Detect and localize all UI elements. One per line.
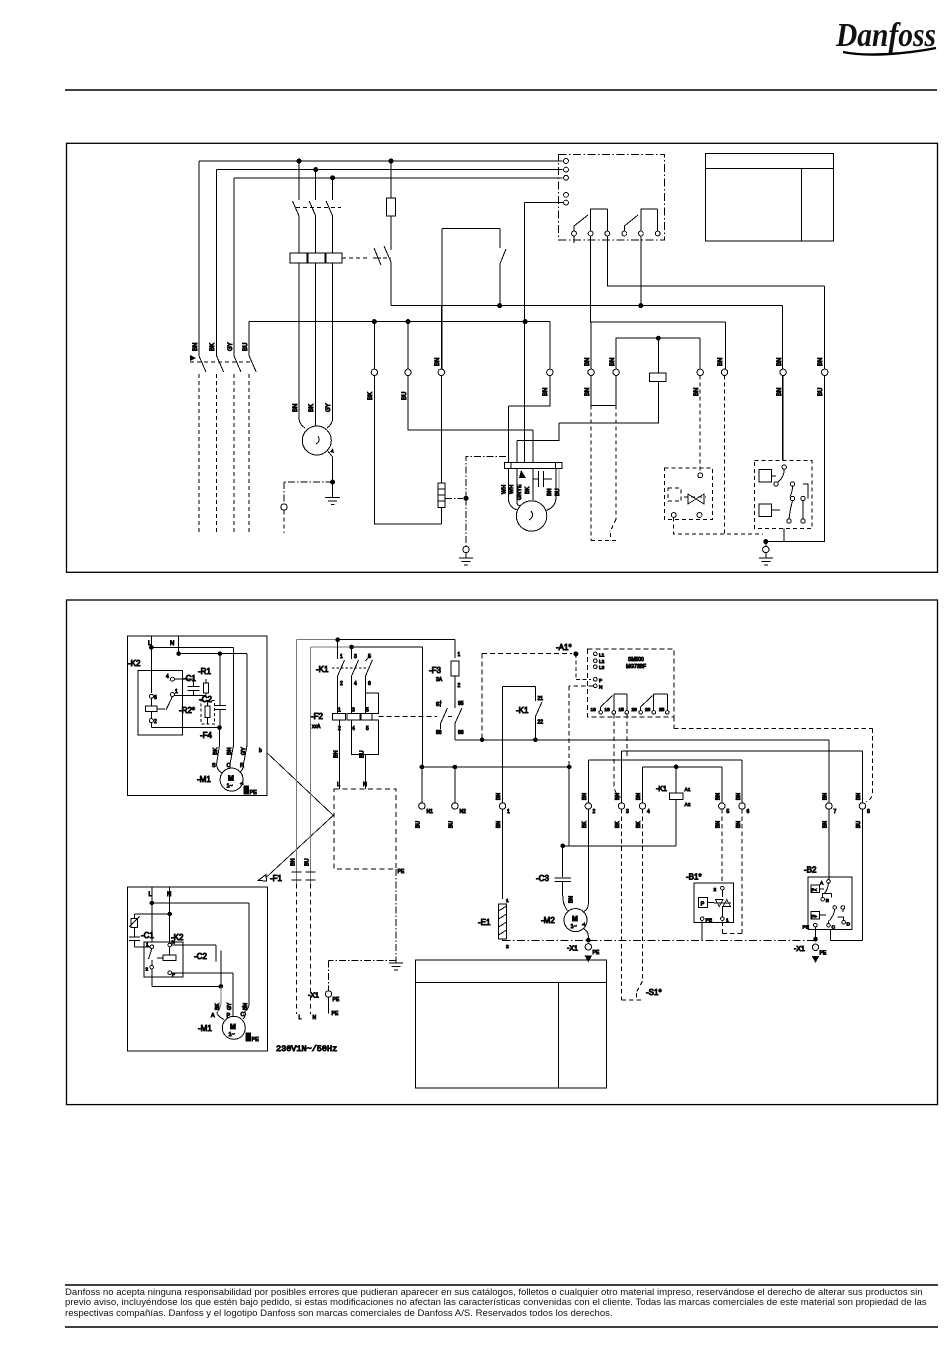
svg-text:BU: BU bbox=[449, 821, 455, 828]
svg-text:-F2: -F2 bbox=[311, 712, 324, 721]
svg-text:2: 2 bbox=[506, 944, 509, 950]
dash-dot control box (top right) bbox=[559, 154, 665, 240]
svg-text:2: 2 bbox=[340, 681, 343, 687]
node L1 junction bbox=[297, 159, 301, 163]
motor M1 230 bbox=[217, 1004, 246, 1039]
component bridge box (contactor bar) bbox=[442, 229, 506, 370]
svg-text:P<: P< bbox=[811, 887, 817, 892]
connector row circles bbox=[371, 369, 828, 375]
svg-text:-K1: -K1 bbox=[316, 665, 329, 674]
svg-text:22: 22 bbox=[538, 720, 544, 726]
svg-text:B: B bbox=[826, 898, 829, 904]
wire net terminal 4 5 with K1 coil bbox=[643, 767, 722, 803]
svg-text:N: N bbox=[167, 892, 171, 898]
dashed drop to B1 bbox=[722, 809, 742, 933]
flag F1 bbox=[258, 875, 267, 882]
svg-text:-S1*: -S1* bbox=[646, 988, 662, 997]
wire N rail left bbox=[422, 647, 569, 803]
svg-text:-R2*: -R2* bbox=[179, 706, 195, 715]
svg-text:1~: 1~ bbox=[229, 1032, 235, 1038]
svg-text:A: A bbox=[211, 1013, 215, 1019]
node grey taps bbox=[336, 638, 340, 642]
module dashed box bbox=[334, 789, 396, 869]
svg-text:M: M bbox=[572, 916, 578, 923]
svg-text:BN: BN bbox=[610, 358, 616, 366]
start relay internals bbox=[759, 376, 808, 542]
wire L1 feed bbox=[199, 161, 563, 356]
terminal PE circle 3 bbox=[763, 546, 769, 552]
svg-text:BN: BN bbox=[585, 388, 591, 396]
svg-text:BU: BU bbox=[555, 488, 561, 496]
svg-text:BN: BN bbox=[547, 488, 553, 496]
wire K2 bottom rail bbox=[151, 727, 219, 729]
svg-text:3A: 3A bbox=[436, 677, 443, 683]
node A1 star bbox=[574, 652, 578, 656]
svg-text:BN: BN bbox=[694, 388, 700, 396]
svg-text:4: 4 bbox=[647, 809, 650, 815]
svg-text:BU: BU bbox=[402, 392, 408, 400]
svg-text:N1: N1 bbox=[427, 809, 434, 815]
main bus bbox=[455, 740, 829, 803]
wire main horizontal to pressure boxes bbox=[391, 306, 782, 461]
terminal X1 PE (230V) bbox=[325, 991, 331, 997]
wire BN drop (441) bbox=[440, 306, 442, 483]
svg-text:1: 1 bbox=[338, 708, 341, 714]
pressure control box (dashed) bbox=[665, 468, 713, 520]
svg-text:BN: BN bbox=[569, 896, 575, 903]
dashed N link A1 bbox=[569, 686, 593, 767]
PE tag M1 bbox=[244, 786, 257, 796]
heater E1 bbox=[499, 809, 509, 950]
svg-text:BN: BN bbox=[736, 821, 742, 828]
svg-text:BN: BN bbox=[585, 358, 591, 366]
svg-text:N: N bbox=[172, 940, 175, 945]
wire A grey bbox=[217, 986, 221, 1012]
box M1 variant 230V bbox=[128, 887, 268, 1051]
svg-text:3: 3 bbox=[626, 809, 629, 815]
svg-text:BN: BN bbox=[496, 793, 502, 800]
svg-text:1: 1 bbox=[340, 654, 343, 660]
wire B1 PE drop bbox=[701, 920, 703, 940]
pressure switch B2 bbox=[803, 809, 853, 930]
svg-text:C: C bbox=[832, 925, 836, 931]
wire F2 outputs bbox=[339, 720, 365, 789]
overload trip linkage bbox=[342, 257, 370, 259]
dashed to P terminal bbox=[576, 654, 591, 679]
svg-text:A1: A1 bbox=[685, 787, 691, 793]
svg-text:xxA: xxA bbox=[312, 724, 321, 730]
svg-text:BN: BN bbox=[823, 793, 829, 800]
motor M1 bbox=[217, 764, 244, 791]
wire P to motor bbox=[172, 973, 233, 1012]
svg-text:-K2: -K2 bbox=[128, 659, 141, 668]
svg-text:5: 5 bbox=[366, 708, 369, 714]
svg-text:4: 4 bbox=[354, 681, 357, 687]
wire PE dashed stub bbox=[283, 511, 285, 534]
breaker Q1 pole 2 bbox=[309, 170, 316, 253]
schematic frame 1 bbox=[67, 143, 938, 572]
svg-text:WH: WH bbox=[509, 485, 515, 494]
wire L bbox=[150, 636, 152, 693]
svg-text:BK: BK bbox=[309, 404, 315, 412]
capacitor C (run cap M2) bbox=[533, 471, 552, 487]
svg-text:L3: L3 bbox=[599, 665, 605, 671]
node junction 641 bbox=[639, 304, 643, 308]
controller A1 dashed box bbox=[587, 649, 674, 717]
svg-text:1: 1 bbox=[146, 942, 149, 947]
motor M2 (1~) bbox=[516, 501, 546, 531]
relay K2 box bbox=[138, 670, 183, 735]
svg-text:26: 26 bbox=[632, 707, 638, 713]
footer rules bbox=[65, 1284, 938, 1286]
node junction bbox=[764, 540, 768, 544]
svg-text:5: 5 bbox=[727, 809, 730, 815]
wire S bbox=[217, 728, 220, 764]
svg-text:b: b bbox=[259, 748, 262, 754]
resistor R2 dashed option bbox=[201, 701, 215, 724]
svg-text:BN: BN bbox=[716, 821, 722, 828]
svg-text:PE: PE bbox=[706, 918, 712, 924]
wire M1 PE bbox=[327, 450, 333, 482]
svg-text:BU: BU bbox=[360, 750, 366, 758]
relay K2 230 bbox=[144, 933, 184, 977]
trip dashes F2 to F3 bbox=[378, 716, 437, 718]
header rule bbox=[65, 89, 937, 91]
breaker linkage bbox=[296, 207, 341, 209]
wire dashed bottom link bbox=[674, 517, 763, 534]
switch K2 contacts on feed lines bbox=[190, 355, 256, 372]
svg-text:6: 6 bbox=[368, 681, 371, 687]
svg-text:BN: BN bbox=[496, 821, 502, 828]
svg-text:-X1: -X1 bbox=[308, 993, 319, 1000]
svg-text:BN: BN bbox=[856, 793, 862, 800]
svg-text:1: 1 bbox=[726, 918, 729, 924]
wire dashed L N to X1 bbox=[297, 884, 311, 1014]
svg-text:N: N bbox=[599, 684, 603, 690]
svg-text:3: 3 bbox=[354, 654, 357, 660]
wire motor M1 phases bbox=[299, 305, 333, 415]
wire N 230 bbox=[169, 887, 171, 943]
svg-text:BN: BN bbox=[777, 358, 783, 366]
svg-text:-F1: -F1 bbox=[270, 874, 283, 883]
svg-text:BN: BN bbox=[543, 388, 549, 396]
svg-text:N2: N2 bbox=[460, 809, 467, 815]
svg-text:BU: BU bbox=[243, 343, 249, 351]
terminal X1 B2 bbox=[812, 944, 818, 950]
wire L2 feed bbox=[217, 170, 563, 356]
fuse clips F1 bbox=[292, 872, 316, 880]
wire BN drop 550 bbox=[508, 322, 549, 463]
wire B2 PE drop bbox=[814, 927, 816, 939]
wire BU bus bbox=[249, 322, 550, 356]
svg-text:95: 95 bbox=[458, 701, 464, 707]
svg-text:1: 1 bbox=[507, 809, 510, 815]
wire terminal2 to M2 bbox=[584, 809, 588, 911]
terminal X1 M2 bbox=[585, 944, 591, 950]
svg-text:-X1: -X1 bbox=[794, 946, 805, 953]
svg-text:L1: L1 bbox=[599, 653, 605, 659]
dashed drops to pressure switch box bbox=[700, 376, 724, 535]
wire labels row bbox=[416, 793, 863, 828]
svg-text:PE: PE bbox=[250, 790, 258, 796]
svg-text:PE: PE bbox=[593, 950, 600, 956]
svg-text:BK: BK bbox=[615, 821, 621, 828]
breaker Q1 pole 3 bbox=[326, 178, 333, 253]
fuse F (line 1 tap) bbox=[387, 161, 396, 250]
svg-text:BK: BK bbox=[582, 821, 588, 828]
wire right return bbox=[766, 376, 825, 542]
svg-text:BK: BK bbox=[368, 392, 374, 400]
node PE junction 2 bbox=[464, 496, 468, 500]
svg-text:4: 4 bbox=[352, 726, 355, 732]
sensor B1 box bbox=[686, 873, 734, 924]
svg-text:7: 7 bbox=[834, 809, 837, 815]
pointer a to F1 bbox=[266, 815, 333, 877]
svg-text:18: 18 bbox=[605, 707, 611, 713]
thermistor branch bbox=[129, 914, 170, 937]
node fuse junction bbox=[389, 159, 393, 163]
svg-text:PE: PE bbox=[820, 951, 827, 957]
relay K2 internals bbox=[145, 674, 178, 728]
svg-text:15: 15 bbox=[619, 707, 625, 713]
trip switch to fuse line bbox=[373, 248, 381, 265]
rating table bbox=[706, 153, 834, 241]
svg-text:-A1*: -A1* bbox=[556, 643, 572, 652]
node junction 499 bbox=[498, 304, 502, 308]
svg-text:BN: BN bbox=[636, 793, 642, 800]
dash-dot PE rail bbox=[503, 939, 816, 941]
svg-text:BN: BN bbox=[718, 358, 724, 366]
svg-text:PE: PE bbox=[333, 997, 340, 1003]
svg-text:BK: BK bbox=[636, 821, 642, 828]
svg-text:L: L bbox=[299, 1015, 302, 1021]
wire top feeds bbox=[338, 640, 456, 647]
dashed output 15 bbox=[626, 714, 628, 757]
svg-text:GY: GY bbox=[326, 403, 332, 412]
svg-text:-E1: -E1 bbox=[478, 918, 491, 927]
wire PE dash-dot riser bbox=[466, 456, 507, 546]
capacitor C1 bbox=[174, 679, 206, 695]
neutral drop to M2 net bbox=[563, 767, 677, 846]
svg-text:16: 16 bbox=[591, 707, 597, 713]
svg-text:BU: BU bbox=[305, 858, 311, 866]
svg-text:P>: P> bbox=[811, 914, 817, 919]
wire L3 feed bbox=[234, 178, 563, 356]
dashed output 18 bbox=[614, 714, 621, 797]
wire BK drop bbox=[374, 322, 441, 524]
capacitor C3 bbox=[555, 846, 572, 911]
svg-text:L2: L2 bbox=[599, 659, 605, 665]
svg-text:BN: BN bbox=[818, 358, 824, 366]
ground symbol 2 bbox=[459, 553, 473, 565]
node dots on BU bus bbox=[372, 320, 376, 324]
wire PE dashdot module bbox=[329, 869, 396, 991]
start relay box (dashed) bbox=[755, 461, 812, 529]
svg-text:230V1N~/50Hz: 230V1N~/50Hz bbox=[276, 1044, 337, 1054]
breaker Q1 pole 1 bbox=[293, 161, 300, 253]
svg-text:96: 96 bbox=[458, 730, 464, 736]
svg-text:BN: BN bbox=[736, 793, 742, 800]
svg-text:GNYE: GNYE bbox=[517, 484, 523, 500]
terminal PE circle 2 bbox=[463, 546, 469, 552]
ground module bbox=[389, 960, 403, 970]
svg-text:MG73BF: MG73BF bbox=[626, 664, 646, 670]
rating table bottom bbox=[416, 960, 607, 1088]
box M1 variant 1 bbox=[128, 636, 267, 796]
svg-text:PE: PE bbox=[252, 1037, 260, 1043]
coil K1 bbox=[656, 767, 691, 846]
svg-text:BN: BN bbox=[293, 404, 299, 412]
wire 591 above bbox=[590, 322, 592, 369]
svg-text:4: 4 bbox=[166, 674, 169, 680]
svg-text:SM500: SM500 bbox=[628, 657, 644, 663]
svg-text:2: 2 bbox=[458, 683, 461, 689]
svg-text:M: M bbox=[230, 1024, 236, 1031]
wire PE dash-dot left bbox=[284, 482, 333, 503]
svg-text:GY: GY bbox=[241, 747, 247, 755]
svg-text:BN: BN bbox=[435, 358, 441, 366]
svg-text:98: 98 bbox=[436, 730, 442, 736]
svg-text:-C1: -C1 bbox=[141, 931, 154, 940]
fuse F3 bbox=[451, 640, 462, 740]
svg-text:2: 2 bbox=[154, 719, 157, 725]
wire BU drop bbox=[408, 322, 533, 463]
terminal row bbox=[419, 803, 866, 809]
svg-text:-B1*: -B1* bbox=[686, 873, 702, 882]
svg-text:-K1: -K1 bbox=[516, 706, 529, 715]
svg-text:-C2: -C2 bbox=[199, 695, 212, 704]
svg-text:N: N bbox=[170, 641, 174, 647]
relay contact group 1 bbox=[572, 209, 610, 236]
terminal numbers bbox=[427, 809, 871, 815]
svg-text:M: M bbox=[228, 776, 234, 783]
wire L 230 bbox=[151, 887, 153, 942]
svg-text:BU: BU bbox=[416, 821, 422, 828]
svg-text:P: P bbox=[701, 902, 705, 908]
node L2 junction bbox=[314, 168, 318, 172]
svg-text:P: P bbox=[599, 678, 602, 684]
aux contact K1 21 22 bbox=[503, 686, 544, 802]
svg-text:-M1: -M1 bbox=[198, 1024, 212, 1033]
svg-text:GY: GY bbox=[227, 1002, 233, 1010]
overload F2 bbox=[332, 693, 378, 754]
svg-text:2: 2 bbox=[146, 967, 149, 972]
svg-text:-K1: -K1 bbox=[656, 786, 667, 793]
motor M2 bbox=[564, 909, 588, 941]
svg-text:-M2: -M2 bbox=[541, 916, 555, 925]
relay contact group 2 bbox=[622, 209, 660, 236]
svg-text:-X1: -X1 bbox=[567, 946, 578, 953]
relay coil (element at 658) bbox=[517, 336, 700, 462]
node M2 PE bbox=[587, 938, 591, 942]
svg-text:28: 28 bbox=[645, 707, 651, 713]
svg-text:1: 1 bbox=[175, 689, 178, 695]
svg-text:A2: A2 bbox=[685, 802, 691, 808]
terminals on box left bbox=[564, 159, 569, 205]
relay outputs A1 bbox=[591, 694, 670, 714]
svg-text:PE: PE bbox=[803, 925, 809, 931]
svg-text:BU: BU bbox=[818, 388, 824, 396]
capacitor C1 230 bbox=[129, 937, 150, 947]
capacitor C2 230 bbox=[172, 945, 221, 986]
svg-text:21: 21 bbox=[538, 696, 544, 702]
svg-text:BN: BN bbox=[291, 858, 297, 866]
resistor R1 bbox=[204, 679, 209, 695]
svg-text:-M1: -M1 bbox=[197, 775, 211, 784]
heater strip (crankcase) bbox=[438, 483, 445, 508]
svg-text:BK: BK bbox=[215, 1003, 221, 1010]
svg-text:5: 5 bbox=[368, 654, 371, 660]
svg-text:-F4: -F4 bbox=[200, 731, 213, 740]
svg-text:BN: BN bbox=[777, 388, 783, 396]
svg-text:GY: GY bbox=[228, 342, 234, 351]
ground M1 bbox=[325, 482, 340, 505]
svg-text:5: 5 bbox=[366, 726, 369, 732]
node L3 junction bbox=[331, 176, 335, 180]
svg-text:BN: BN bbox=[334, 750, 340, 758]
svg-text:WH: WH bbox=[502, 485, 508, 494]
PE arrow under bar bbox=[519, 470, 526, 478]
trip switch on fuse wire bbox=[384, 246, 391, 306]
svg-text:1~: 1~ bbox=[227, 784, 233, 790]
wire net terminal 3 to 8 bbox=[622, 751, 863, 803]
svg-text:-R1: -R1 bbox=[198, 667, 211, 676]
svg-text:1: 1 bbox=[506, 898, 509, 904]
wire B2 wrap from 8 bbox=[830, 809, 862, 941]
terminals pressure box bbox=[698, 473, 703, 478]
svg-text:BK: BK bbox=[210, 343, 216, 351]
wire L to C bbox=[152, 903, 249, 1012]
wire dash to PE node bbox=[445, 497, 463, 499]
svg-text:L: L bbox=[337, 782, 340, 788]
schematic frame 2 bbox=[67, 600, 938, 1105]
svg-text:BN: BN bbox=[193, 343, 199, 351]
svg-text:3: 3 bbox=[352, 708, 355, 714]
svg-text:6: 6 bbox=[747, 809, 750, 815]
svg-text:S: S bbox=[212, 763, 216, 769]
svg-text:2: 2 bbox=[593, 809, 596, 815]
svg-text:PE: PE bbox=[398, 869, 405, 875]
svg-text:1~: 1~ bbox=[571, 924, 577, 930]
wire aux feed bbox=[524, 203, 563, 463]
Danfoss logo bbox=[835, 17, 936, 55]
svg-text:-F3: -F3 bbox=[429, 666, 442, 675]
terminals L1 L2 L3 P N bbox=[594, 652, 605, 690]
svg-text:BN: BN bbox=[615, 793, 621, 800]
svg-text:97: 97 bbox=[436, 702, 442, 708]
svg-text:-C1: -C1 bbox=[183, 674, 196, 683]
dashed A1 supply bbox=[482, 654, 572, 740]
svg-text:BK: BK bbox=[525, 486, 531, 494]
PE tag M1 230 bbox=[246, 1033, 259, 1043]
svg-text:BN: BN bbox=[716, 793, 722, 800]
wire grey L bbox=[297, 640, 351, 884]
svg-text:A: A bbox=[820, 881, 824, 887]
wires dashed below K2 contacts bbox=[199, 374, 249, 533]
aux contact 97 98 bbox=[436, 700, 448, 736]
node PE junction bbox=[331, 480, 335, 484]
terminal bar M2 bbox=[505, 463, 562, 469]
pointer b from box to module bbox=[267, 753, 333, 816]
svg-text:D: D bbox=[847, 922, 851, 928]
svg-text:-B2: -B2 bbox=[804, 866, 817, 875]
wire N bbox=[178, 636, 180, 654]
svg-text:-C2: -C2 bbox=[194, 952, 207, 961]
svg-text:BN: BN bbox=[823, 821, 829, 828]
wire pair 591/616 jumper bbox=[591, 376, 616, 406]
svg-text:6: 6 bbox=[154, 695, 157, 701]
svg-text:N: N bbox=[363, 782, 367, 788]
